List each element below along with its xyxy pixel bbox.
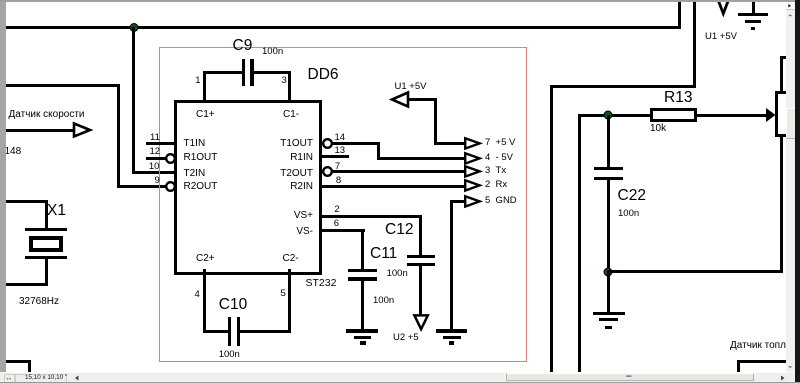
label C22	[618, 188, 646, 204]
power arrow U1 +5V near DD6	[395, 82, 427, 92]
pin 11 stub T1IN	[146, 142, 175, 145]
crystal X1 top wire	[6, 200, 46, 203]
ground C22	[593, 312, 625, 315]
label Датчик топл	[730, 341, 786, 351]
IC pin name R2IN	[250, 182, 313, 192]
vscroll down arrow	[788, 366, 794, 370]
capacitor C9 value 100n	[262, 47, 283, 57]
wire horizontal E y86	[550, 85, 697, 88]
capacitor C22 bottom lead	[607, 180, 610, 273]
vertical scrollbar	[786, 0, 796, 383]
IC pin name C2+	[196, 254, 215, 264]
connector arrow pin 5 GND	[464, 195, 483, 208]
capacitor C10 pin4 lead	[203, 269, 206, 333]
C9 pin 1 wire down	[203, 71, 206, 101]
window chrome: top gray strip	[0, 0, 795, 2]
wire GND arrow down	[450, 200, 465, 203]
pin 14 bubble T1OUT	[321, 137, 334, 150]
power arrow V top right	[716, 0, 731, 18]
label Датчик скорости	[9, 110, 85, 120]
status icon panel	[4, 374, 15, 383]
pin number 3	[282, 76, 287, 86]
pin 10 number	[149, 162, 160, 172]
connector arrow pin 4	[464, 152, 483, 165]
label X1	[47, 203, 66, 219]
potentiometer top wire	[780, 56, 796, 59]
hscroll right button	[780, 375, 787, 381]
label 148	[5, 147, 22, 157]
pin 13 stub R1IN	[322, 155, 350, 158]
status text panel	[15, 374, 67, 383]
wire R13 to potentiometer with arrow	[697, 114, 767, 117]
crystal X1 bottom lead	[45, 258, 48, 285]
ground top right	[752, 2, 755, 13]
junction dot on top wire	[128, 22, 140, 34]
vscroll up arrow	[788, 14, 794, 18]
capacitor C9 left lead	[203, 71, 242, 74]
pin 7 bubble T2OUT	[321, 165, 334, 178]
IC pin name VS+	[250, 211, 313, 221]
label DD6	[308, 67, 339, 83]
IC pin name C2-	[283, 254, 299, 264]
capacitor C10	[219, 297, 247, 313]
IC pin name T2IN	[184, 169, 206, 179]
wire vertical H x579	[578, 114, 581, 373]
crystal X1 top lead	[45, 200, 48, 229]
resistor R13 label	[664, 90, 692, 106]
label U1 +5V top right	[705, 32, 737, 42]
wire top horizontal net +5V	[6, 26, 679, 29]
pin number 1	[195, 76, 200, 86]
wire pin14 to connector pin4	[332, 142, 380, 145]
potentiometer bottom wire	[780, 137, 783, 273]
wire T2IN pin 10 horizontal	[132, 171, 176, 174]
IC pin name T2OUT	[250, 169, 313, 179]
pin 8 wire R2IN to connector pin2	[322, 185, 466, 188]
partial box bottom left	[6, 360, 30, 363]
wire M to potentiometer bottom	[607, 270, 782, 273]
capacitor C22 plates	[594, 167, 624, 170]
junction dot C22 bottom	[602, 266, 614, 278]
wire vertical F x551	[550, 85, 553, 373]
capacitor C9 right lead	[254, 71, 291, 74]
right black strip	[795, 0, 800, 383]
resistor R13 body	[650, 108, 697, 122]
IC pin name VS-	[250, 227, 313, 237]
IC DD6 box	[174, 100, 322, 275]
IC pin name R1IN	[250, 153, 313, 163]
partial box Датчик топл	[737, 360, 796, 363]
wire speed-sensor horizontal y85	[6, 84, 119, 87]
pin 12 stub R1OUT with bubble	[146, 157, 167, 160]
IC pin name T1IN	[184, 139, 206, 149]
connector arrow pin 3	[464, 165, 483, 178]
wire pin7 to connector pin3	[332, 170, 466, 173]
pin 9 bubble R2OUT	[164, 180, 177, 193]
wire vertical to R2OUT	[117, 84, 120, 188]
crystal X1 bottom plate	[25, 256, 67, 259]
capacitor C22 top lead	[607, 115, 610, 168]
window chrome: left gray strip	[0, 0, 6, 383]
pin 2 wire VS+	[322, 215, 423, 218]
hscroll thumb	[506, 373, 754, 381]
IC pin name C1+	[196, 110, 215, 120]
wire C22 to ground	[607, 272, 610, 312]
ground C11	[346, 329, 379, 332]
red selection rectangle	[159, 47, 527, 362]
wire vertical top D	[693, 2, 696, 86]
bottom window edge	[0, 382, 800, 383]
wire horizontal G y115	[578, 114, 650, 117]
wire vertical top right A	[678, 2, 681, 29]
IC pin name R2OUT	[184, 182, 218, 192]
arrow speed sensor	[6, 129, 76, 132]
hscroll left button	[74, 375, 81, 381]
vscroll thumb	[786, 108, 797, 140]
crystal X1 bottom wire	[6, 283, 48, 286]
capacitor C9 plates	[242, 59, 246, 87]
IC pin name R1OUT	[184, 153, 218, 163]
capacitor C12	[385, 222, 413, 238]
resistor R13 value 10k	[650, 124, 666, 134]
IC pin name T1OUT	[250, 139, 313, 149]
connector arrow pin 2	[464, 179, 483, 192]
ground under GND	[436, 329, 467, 332]
wire R2OUT pin 9 horizontal	[117, 185, 167, 188]
power arrow U2 +5 down	[413, 314, 430, 333]
connector arrow pin 7	[464, 137, 483, 150]
capacitor C9 label	[233, 38, 253, 54]
capacitor C11	[370, 246, 397, 262]
capacitor C10 pin5 lead	[288, 269, 291, 333]
pin 6 wire VS-	[322, 229, 366, 232]
bottom status / scrollbar band	[0, 372, 795, 383]
potentiometer body	[775, 91, 795, 137]
label 32768Hz	[19, 297, 59, 307]
crystal X1 body	[29, 236, 63, 252]
label ST232	[306, 278, 337, 289]
crystal X1 top plate	[25, 228, 67, 231]
junction dot R13 net	[602, 109, 614, 121]
wire vertical from junction to T2IN	[132, 27, 135, 174]
IC pin name C1-	[283, 110, 299, 120]
vscroll top button	[786, 2, 794, 11]
C9 pin 3 wire down	[288, 71, 291, 101]
